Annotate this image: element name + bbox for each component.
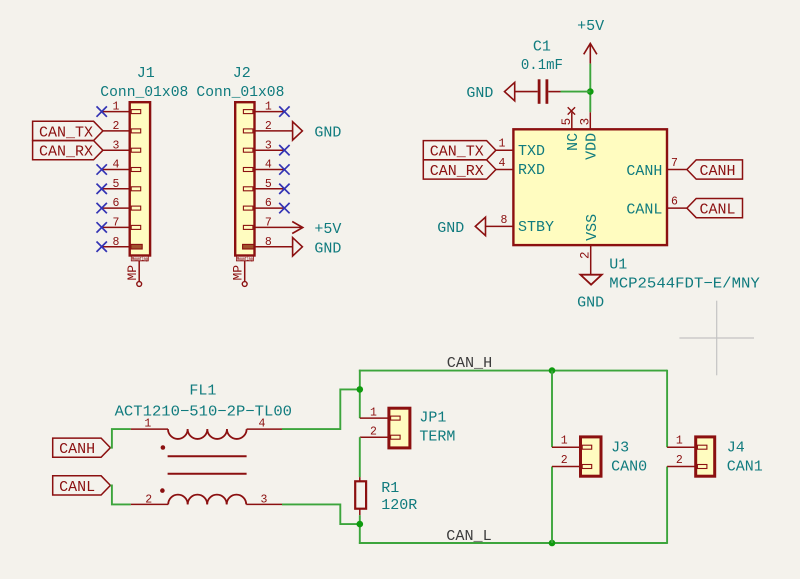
J1 pin 6 notch (131, 206, 141, 210)
svg-text:RXD: RXD (518, 162, 545, 179)
U1 NC pin 5 x-mark (568, 107, 575, 114)
svg-text:7: 7 (671, 157, 678, 170)
power symbol GND at U1 VSS (577, 275, 604, 312)
svg-text:7: 7 (265, 217, 272, 230)
J2 pin 4 no-connect X (279, 164, 289, 174)
svg-text:VDD: VDD (584, 133, 601, 160)
U1 pin 7 number (671, 157, 678, 170)
J2 pin 5 notch (243, 187, 253, 191)
junction CAN_L at J3 (549, 540, 556, 547)
svg-text:6: 6 (671, 196, 678, 209)
svg-text:MP: MP (230, 265, 245, 281)
wire C1 to junction (561, 91, 591, 93)
J1 MP pin line (138, 261, 140, 282)
svg-text:1: 1 (561, 435, 568, 448)
wire CAN_H down to J4 pin 1 (666, 370, 668, 448)
J2 pin 8 notch (243, 244, 254, 249)
J2 pin 1 number (265, 101, 272, 114)
J2 pin 6 number (265, 197, 272, 210)
J2 pin 6 no-connect X (279, 203, 289, 213)
svg-text:2: 2 (113, 120, 120, 133)
J3 pin 1 line (552, 446, 581, 448)
J3 reference (611, 439, 629, 456)
svg-text:2: 2 (145, 494, 152, 507)
svg-text:CAN_TX: CAN_TX (39, 124, 93, 141)
svg-text:CANL: CANL (700, 202, 736, 219)
FL1 top polarity dot (161, 445, 166, 450)
J1 pin 7 notch (131, 225, 141, 229)
svg-text:2: 2 (370, 426, 377, 439)
connector J1 value (100, 84, 188, 101)
svg-text:CAN_RX: CAN_RX (39, 144, 93, 161)
U1 pin 6 number (671, 196, 678, 209)
svg-text:Conn_01x08: Conn_01x08 (196, 84, 284, 101)
J2 pin 3 line (255, 149, 285, 151)
connector J1 body (130, 102, 150, 255)
choke FL1 reference (189, 383, 216, 400)
svg-text:CANH: CANH (700, 163, 736, 180)
U1 pin 4 number (499, 157, 506, 170)
connector J2 body (235, 102, 254, 255)
J2 pin 7 line (255, 226, 303, 228)
J1 pin 8 no-connect X (97, 242, 107, 252)
svg-text:Conn_01x08: Conn_01x08 (100, 84, 188, 101)
J2 pin 2 number (265, 120, 272, 133)
J2 pin 6 notch (243, 206, 253, 210)
U1 pin 1 name TXD (518, 143, 545, 160)
U1 pin 5 number (560, 118, 574, 126)
svg-text:4: 4 (259, 417, 266, 430)
svg-text:120R: 120R (381, 497, 417, 514)
C1 right lead (548, 91, 560, 93)
svg-text:CANH: CANH (626, 163, 662, 180)
J2 pin 4 line (255, 169, 285, 171)
U1 pin 1 number (499, 138, 506, 151)
power symbol +5V at J2 pin 7 (292, 221, 341, 238)
svg-text:J2: J2 (233, 65, 251, 82)
svg-text:5: 5 (265, 178, 272, 191)
J1 pin 1 number (113, 101, 120, 114)
U1 VDD pin 3 line (589, 112, 591, 129)
svg-text:MP: MP (125, 265, 140, 281)
U1 pin 4 name RXD (518, 162, 545, 179)
FL1 pin 2 number (145, 494, 152, 507)
svg-text:+5V: +5V (577, 18, 604, 35)
wire CAN_H down to J3 pin 1 (551, 371, 553, 448)
J2 mounting text (236, 256, 253, 262)
U1 pin 2 number (579, 251, 593, 259)
J1 pin 8 line (102, 246, 130, 248)
global label CANH at FL1 (53, 438, 111, 458)
J2 pin 7 notch (243, 225, 253, 229)
U1 pin 8 number (500, 214, 507, 227)
J4 value CAN1 (727, 458, 763, 475)
svg-text:FL1: FL1 (189, 383, 216, 400)
J4 pin 1 line (667, 446, 696, 448)
J2 MP pin circle (242, 282, 247, 287)
wire J4 pin 2 down to CAN_L (666, 467, 668, 544)
FL1 bottom polarity dot (160, 488, 165, 493)
junction CAN_H at J3 (549, 367, 556, 374)
svg-text:NC: NC (565, 133, 582, 151)
crosshair mark (679, 301, 754, 376)
svg-text:3: 3 (261, 494, 268, 507)
U1 reference (609, 256, 627, 273)
R1 bottom lead (359, 509, 361, 516)
U1 pin 3 name VDD (584, 133, 601, 160)
JP1 pin 1 notch (391, 416, 401, 420)
svg-text:4: 4 (499, 157, 506, 170)
J2 pin 5 number (265, 178, 272, 191)
svg-text:TXD: TXD (518, 143, 545, 160)
global label CAN_RX at J1 pin 3 (33, 141, 103, 161)
U1 pin 8 name STBY (518, 219, 554, 236)
FL1 pin 4 number (259, 417, 266, 430)
J2 pin 5 line (255, 188, 285, 190)
svg-text:2: 2 (561, 454, 568, 467)
J4 pin 2 notch (697, 465, 707, 469)
svg-text:GND: GND (314, 240, 341, 257)
J1 pin 1 no-connect X (97, 106, 107, 116)
J2 MP pin name (230, 265, 245, 281)
wire +5V to VDD (589, 64, 591, 113)
J1 pin 4 no-connect X (97, 164, 107, 174)
connector J2 value (196, 84, 284, 101)
svg-text:1: 1 (370, 406, 377, 419)
svg-text:J1: J1 (137, 65, 155, 82)
svg-text:6: 6 (265, 197, 272, 210)
J2 pin 2 notch (243, 129, 253, 133)
J2 pin 1 line (255, 111, 285, 113)
J1 pin 1 line (102, 111, 130, 113)
svg-text:GND: GND (577, 295, 604, 312)
J2 pin 8 number (265, 236, 272, 249)
J4 reference (727, 439, 745, 456)
J1 MP pin circle (137, 282, 142, 287)
U1 VSS pin 2 line (590, 246, 592, 275)
U1 RXD pin 4 line (496, 169, 514, 171)
power symbol GND at J2 pin 2 (293, 122, 342, 142)
svg-text:6: 6 (113, 197, 120, 210)
J1 pin 6 line (102, 207, 130, 209)
J1 pin 3 notch (131, 148, 141, 152)
svg-text:4: 4 (265, 159, 272, 172)
J2 pin 7 number (265, 217, 272, 230)
global label CAN_TX at U1 (423, 141, 496, 161)
connector J4 body (696, 437, 715, 476)
power symbol GND at U1 STBY (437, 217, 485, 237)
J1 pin 5 number (113, 178, 120, 191)
J3 value CAN0 (611, 458, 647, 475)
net label CAN_H (447, 355, 493, 372)
J2 pin 6 line (255, 207, 285, 209)
J1 pin 8 number (113, 236, 120, 249)
svg-text:C1: C1 (533, 38, 551, 55)
svg-text:3: 3 (113, 139, 120, 152)
connector J2 reference (233, 65, 251, 82)
svg-text:5: 5 (560, 118, 574, 126)
J1 pin 6 number (113, 197, 120, 210)
J4 pin 2 number (676, 454, 683, 467)
svg-text:CAN_RX: CAN_RX (430, 163, 484, 180)
wire J3 pin 2 down to CAN_L (551, 467, 553, 544)
FL1 pin 4 line (247, 428, 282, 430)
svg-text:8: 8 (265, 236, 272, 249)
J1 pin 4 number (113, 159, 120, 172)
svg-text:CAN_TX: CAN_TX (430, 144, 484, 161)
svg-text:1: 1 (265, 101, 272, 114)
svg-text:1: 1 (144, 417, 151, 430)
svg-text:JP1: JP1 (419, 410, 446, 427)
svg-text:CANH: CANH (59, 441, 95, 458)
FL1 top winding (168, 429, 247, 439)
svg-text:MCP2544FDT−E/MNY: MCP2544FDT−E/MNY (609, 276, 760, 293)
FL1 pin 2 line (131, 503, 168, 505)
J1 pin 4 notch (131, 168, 141, 172)
R1 reference (381, 480, 399, 497)
J1 pin 7 line (102, 226, 130, 228)
JP1 reference (419, 410, 446, 427)
wire CAN_H down to JP1 pin 1 (359, 370, 361, 418)
JP1 value TERM (419, 429, 455, 446)
junction at +5V / C1 (587, 88, 594, 95)
FL1 pin 1 line (131, 428, 168, 430)
J2 MP pin line (244, 261, 246, 282)
capacitor C1 value (521, 57, 563, 74)
U1 pin 2 name VSS (584, 214, 601, 241)
J1 pin 8 notch (131, 244, 142, 249)
svg-text:STBY: STBY (518, 219, 554, 236)
svg-text:1: 1 (499, 138, 506, 151)
svg-text:0.1mF: 0.1mF (521, 57, 563, 74)
U1 NC pin 5 line (571, 112, 573, 129)
connector J1 reference (137, 65, 155, 82)
power symbol GND at C1 (466, 82, 514, 102)
svg-text:7: 7 (113, 217, 120, 230)
svg-text:R1: R1 (381, 480, 399, 497)
J2 pin 4 number (265, 159, 272, 172)
resistor R1 body (355, 481, 366, 508)
wire CAN_H (359, 370, 667, 372)
junction below R1 (357, 521, 364, 528)
svg-text:J4: J4 (727, 439, 745, 456)
FL1 bottom winding (168, 495, 246, 505)
J1 pin 1 notch (131, 110, 141, 114)
U1 CANH pin 7 line (667, 169, 687, 171)
J2 pin 5 no-connect X (279, 184, 289, 194)
JP1 pin 2 line (360, 436, 389, 438)
svg-text:4: 4 (113, 159, 120, 172)
wire CANH label to FL1 pin 1 (110, 429, 130, 448)
junction at JP1 pin 1 branch (357, 386, 364, 393)
svg-text:1: 1 (676, 435, 683, 448)
J4 pin 1 number (676, 435, 683, 448)
svg-text:GND: GND (466, 85, 493, 102)
J2 pin 3 no-connect X (279, 145, 289, 155)
capacitor C1 reference (533, 38, 551, 55)
J2 pin 3 number (265, 139, 272, 152)
J2 pin 4 notch (243, 168, 253, 172)
J3 pin 1 notch (582, 445, 592, 449)
J1 MP pin name (125, 265, 140, 281)
global label CANL at FL1 (53, 476, 111, 496)
U1 TXD pin 1 line (496, 149, 514, 151)
global label CAN_RX at U1 (423, 160, 496, 180)
J1 pin 2 notch (131, 129, 141, 133)
power symbol +5V above U1 (577, 18, 604, 63)
U1 pin 6 name CANL (626, 201, 662, 218)
wire FL1 pin 3 to R1 junction (282, 504, 360, 524)
svg-text:CANL: CANL (59, 479, 95, 496)
J1 pin 2 line (103, 130, 130, 132)
svg-text:CANL: CANL (626, 201, 662, 218)
J1 pin 5 notch (131, 187, 141, 191)
wire CANL label to FL1 pin 2 (110, 485, 130, 504)
net label CAN_L (446, 528, 492, 545)
J1 pin 5 line (102, 188, 130, 190)
capacitor C1 plates (539, 79, 547, 104)
svg-text:J3: J3 (611, 439, 629, 456)
svg-text:CAN1: CAN1 (727, 458, 763, 475)
power symbol GND at J2 pin 8 (293, 238, 342, 258)
wire JP1 pin 2 to R1 (359, 437, 361, 477)
J2 pin 1 notch (243, 110, 253, 114)
wire CAN_L (359, 542, 667, 544)
J3 pin 2 line (552, 466, 581, 468)
svg-text:U1: U1 (609, 256, 627, 273)
R1 top lead (359, 477, 361, 481)
global label CANH at U1 (687, 160, 743, 180)
svg-text:3: 3 (578, 118, 592, 126)
wire FL1 pin 4 to JP1 junction (282, 389, 360, 429)
J1 mounting text (131, 256, 148, 262)
svg-text:2: 2 (265, 120, 272, 133)
svg-text:8: 8 (113, 236, 120, 249)
J2 pin 8 line (255, 246, 293, 248)
J1 pin 3 number (113, 139, 120, 152)
J4 pin 2 line (667, 466, 696, 468)
svg-text:2: 2 (676, 454, 683, 467)
op-amp U1 body (513, 129, 667, 245)
J3 pin 2 number (561, 454, 568, 467)
U1 pin 5 name NC (565, 133, 582, 151)
U1 value (609, 276, 760, 293)
J1 pin 2 number (113, 120, 120, 133)
FL1 pin 1 number (144, 417, 151, 430)
FL1 core bars (168, 456, 247, 473)
svg-text:CAN_H: CAN_H (447, 355, 493, 372)
JP1 pin 2 notch (391, 435, 401, 439)
U1 pin 7 name CANH (626, 163, 662, 180)
svg-text:1: 1 (113, 101, 120, 114)
global label CAN_TX at J1 pin 2 (33, 121, 103, 141)
svg-text:CAN0: CAN0 (611, 458, 647, 475)
svg-text:GND: GND (314, 124, 341, 141)
svg-text:3: 3 (265, 139, 272, 152)
J1 pin 6 no-connect X (97, 203, 107, 213)
J2 pin 2 line (255, 130, 293, 132)
jumper JP1 body (389, 408, 410, 448)
J1 pin 7 number (113, 217, 120, 230)
J2 pin 3 notch (243, 148, 253, 152)
global label CANL at U1 (687, 199, 743, 219)
svg-text:8: 8 (500, 214, 507, 227)
J4 pin 1 notch (697, 445, 707, 449)
FL1 pin 3 number (261, 494, 268, 507)
svg-text:2: 2 (579, 251, 593, 259)
J1 pin 4 line (102, 169, 130, 171)
connector J3 body (581, 437, 602, 476)
JP1 pin 1 number (370, 406, 377, 419)
U1 pin 3 number (578, 118, 592, 126)
U1 CANL pin 6 line (667, 207, 687, 209)
C1 left lead (515, 91, 538, 93)
svg-text:GND: GND (437, 220, 464, 237)
svg-text:5: 5 (113, 178, 120, 191)
svg-text:TERM: TERM (419, 429, 455, 446)
J1 pin 5 no-connect X (97, 184, 107, 194)
choke FL1 value (115, 403, 292, 420)
svg-text:+5V: +5V (314, 221, 341, 238)
J1 pin 3 line (103, 149, 130, 151)
U1 STBY pin 8 line (485, 225, 514, 227)
J3 pin 2 notch (582, 465, 592, 469)
JP1 pin 2 number (370, 426, 377, 439)
svg-text:VSS: VSS (584, 214, 601, 241)
R1 value 120R (381, 497, 417, 514)
J3 pin 1 number (561, 435, 568, 448)
JP1 pin 1 line (360, 417, 389, 419)
wire R1 to CAN_L (359, 515, 361, 544)
FL1 pin 3 line (246, 503, 282, 505)
J2 pin 1 no-connect X (279, 106, 289, 116)
J1 pin 7 no-connect X (97, 222, 107, 232)
